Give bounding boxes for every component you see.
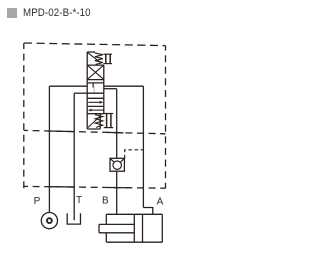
check valve seat V — [110, 159, 124, 163]
adjuster II symbol bottom — [104, 114, 113, 128]
solid segment of mid line at B — [107, 131, 124, 133]
boundary dashed box top edge — [24, 43, 165, 46]
wire A vertical — [142, 86, 144, 207]
wire B vertical upper — [116, 89, 118, 159]
check valve box — [110, 158, 124, 171]
solid segment of mid line between P and T — [49, 130, 75, 133]
rod top — [99, 223, 134, 225]
line between spring box and X box — [87, 64, 104, 66]
box1/box2 divider — [87, 92, 104, 94]
box3/box4 divider — [87, 105, 104, 107]
valve left edge — [86, 52, 88, 129]
rod bottom — [99, 232, 134, 234]
boundary dashed bottom line — [24, 186, 165, 188]
boundary dashed box left edge — [23, 43, 25, 188]
X box bottom edge — [87, 79, 104, 81]
left arrow in box4 — [88, 109, 104, 112]
wire A jog — [143, 208, 152, 215]
pump circle — [41, 213, 57, 229]
gray square bullet — [7, 8, 17, 18]
tank symbol — [67, 213, 80, 224]
tick in box1 — [92, 83, 94, 88]
top spring box (relief element) — [87, 51, 95, 53]
pump inner dot — [47, 218, 52, 223]
main section bottom edge — [87, 113, 104, 115]
rod end cap — [98, 224, 100, 232]
boundary dashed mid line — [24, 130, 165, 133]
svg-text:A: A — [157, 197, 164, 208]
check valve ball — [113, 161, 121, 169]
adjuster II symbol top — [103, 54, 112, 63]
boundary dashed box right edge — [165, 46, 167, 189]
wire P vertical — [48, 86, 50, 212]
cylinder body left lower — [105, 233, 107, 242]
gray tick tail — [93, 85, 96, 93]
spring zigzag bottom — [95, 115, 103, 128]
pilot line dashed — [125, 150, 144, 159]
cylinder body right — [161, 214, 163, 242]
svg-text:B: B — [102, 196, 109, 207]
solid segment of bottom line at B — [108, 187, 130, 189]
solid segment of bottom line between P and T — [49, 186, 75, 188]
diagonal arrow of top spring box — [88, 53, 101, 63]
wire T vertical — [73, 93, 75, 220]
title MPD-02-B-*-10 — [23, 7, 91, 19]
wire T horizontal — [74, 92, 87, 94]
cylinder body top — [106, 213, 162, 215]
wire A horizontal — [104, 85, 144, 87]
right arrow in box3 — [88, 101, 103, 104]
svg-text:T: T — [76, 195, 82, 206]
spring zigzag top — [95, 53, 103, 65]
port labels — [34, 195, 164, 208]
cylinder body bottom — [106, 241, 162, 243]
wire P horizontal — [49, 85, 87, 87]
piston line 2 — [142, 214, 144, 242]
valve right edge — [103, 65, 105, 114]
svg-text:P: P — [34, 196, 41, 207]
wire B vertical lower — [116, 171, 118, 214]
main section top edge — [87, 82, 104, 84]
cylinder body left upper — [105, 214, 107, 224]
wire B horizontal — [104, 88, 117, 90]
X box (closed transition) — [87, 65, 104, 80]
bottom spring box — [87, 114, 100, 129]
box2/box3 divider — [87, 97, 104, 99]
diagonal arrow of bottom spring box — [88, 116, 101, 128]
piston line 1 — [133, 214, 135, 242]
